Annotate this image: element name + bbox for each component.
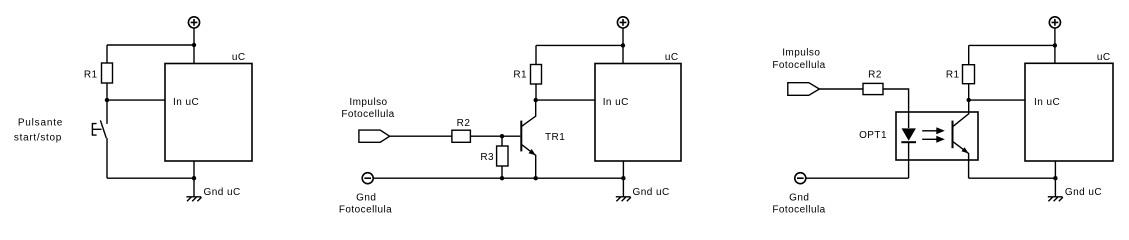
svg-text:uC: uC: [1097, 52, 1111, 63]
label Impulso Fotocellula (circuit 2): [341, 97, 394, 120]
wire junction to R1 (horizontal): [969, 44, 1055, 46]
wire In uC node to uC box: [107, 99, 165, 101]
svg-text:R2: R2: [457, 118, 471, 129]
wire uC box bottom to ground: [193, 161, 195, 197]
label Gnd Fotocellula (circuit 3): [772, 192, 825, 215]
svg-text:Pulsante: Pulsante: [18, 118, 63, 129]
wire tag to R2: [819, 88, 863, 90]
wire uC box bottom to ground: [1054, 161, 1056, 197]
wire R3 to ground rail: [501, 166, 503, 178]
svg-text:Gnd: Gnd: [356, 192, 376, 203]
wire ground rail (horizontal): [373, 177, 623, 179]
svg-text:R1: R1: [513, 69, 527, 80]
wire base node to R3: [501, 136, 503, 146]
node: ground junction: [192, 176, 196, 180]
optocoupler OPT1: [896, 100, 978, 178]
svg-text:In uC: In uC: [173, 97, 199, 108]
power symbol +V (circuit 1): [188, 17, 199, 28]
resistor R1: [963, 65, 975, 84]
node: base junction: [500, 134, 504, 138]
svg-text:R1: R1: [946, 69, 960, 80]
wire R2 to base node: [470, 135, 502, 137]
node: uC ground junction: [1053, 176, 1057, 180]
transistor TR1: [521, 100, 535, 178]
node: In uC junction: [105, 98, 109, 102]
wire tag to R2: [390, 135, 452, 137]
wire junction to R1 top (horizontal): [107, 44, 194, 46]
svg-text:Fotocellula: Fotocellula: [339, 205, 392, 216]
svg-text:start/stop: start/stop: [14, 133, 62, 144]
svg-text:In uC: In uC: [603, 97, 629, 108]
svg-text:Gnd: Gnd: [789, 192, 809, 203]
svg-text:In uC: In uC: [1034, 97, 1060, 108]
wire down to R1: [968, 45, 970, 64]
wire +V to uC box top: [193, 28, 195, 64]
op-amp U2 uC box (circuit 2): [595, 64, 681, 162]
svg-text:R3: R3: [480, 152, 494, 163]
wire R2 to LED anode corner: [883, 89, 909, 112]
svg-text:Fotocellula: Fotocellula: [341, 109, 394, 120]
ground reference Gnd Fotocellula (circuit 3): [795, 173, 806, 184]
resistor R1: [102, 63, 113, 83]
wire R1 to collector node: [535, 84, 537, 100]
svg-text:uC: uC: [232, 52, 246, 63]
op-amp U1 uC box (circuit 1): [165, 64, 252, 162]
wire down to R1: [106, 45, 108, 63]
label Gnd Fotocellula (circuit 2): [339, 192, 392, 215]
svg-text:Fotocellula: Fotocellula: [772, 60, 825, 71]
wire node to uC box: [969, 99, 1025, 101]
node: In uC / collector junction: [967, 98, 971, 102]
node: R1 branch junction: [1053, 43, 1057, 47]
op-amp U3 uC box (circuit 3): [1025, 63, 1113, 161]
wire +V to uC box top: [622, 28, 624, 64]
wire node to uC box: [536, 99, 595, 101]
ground symbol (circuit 2): [616, 197, 631, 201]
wire base node to TR1 base: [502, 135, 520, 137]
wire +V to uC box top: [1054, 28, 1056, 63]
wire ground rail (horizontal): [107, 177, 194, 179]
ground symbol (circuit 3): [1048, 197, 1063, 201]
wire uC box bottom to ground: [622, 161, 624, 197]
resistor R3: [497, 146, 508, 166]
ground reference Gnd Fotocellula (circuit 2): [362, 173, 373, 184]
node: uC ground junction: [621, 176, 625, 180]
wire junction to R1 (horizontal): [536, 44, 623, 46]
svg-text:TR1: TR1: [545, 132, 565, 143]
node tag Impulso input (circuit 2): [359, 130, 390, 142]
svg-text:OPT1: OPT1: [859, 130, 887, 141]
label Impulso Fotocellula (circuit 3): [772, 48, 825, 71]
svg-text:Impulso: Impulso: [349, 97, 387, 108]
power symbol +V (circuit 3): [1049, 17, 1060, 28]
svg-text:Fotocellula: Fotocellula: [772, 205, 825, 216]
wire pushbutton to ground rail: [106, 138, 108, 178]
resistor R2: [452, 130, 471, 142]
wire R1 to collector node: [968, 84, 970, 100]
svg-text:Gnd uC: Gnd uC: [1065, 187, 1102, 198]
svg-text:Gnd uC: Gnd uC: [204, 187, 241, 198]
pushbutton S1 (Pulsante start/stop): [92, 120, 106, 138]
svg-text:R2: R2: [868, 69, 882, 80]
resistor R1: [531, 65, 542, 85]
node: R1 branch junction: [621, 43, 625, 47]
node: emitter rail junction: [534, 176, 538, 180]
wire LED cathode to Gnd Fotocellula rail: [908, 142, 910, 178]
node tag Impulso input (circuit 3): [788, 83, 820, 96]
node: R1 branch junction: [192, 43, 196, 47]
svg-text:uC: uC: [665, 52, 679, 63]
node: In uC / collector junction: [534, 98, 538, 102]
wire emitter to uC ground rail: [969, 177, 1056, 179]
svg-text:Gnd uC: Gnd uC: [633, 187, 670, 198]
svg-text:R1: R1: [84, 69, 98, 80]
svg-text:Impulso: Impulso: [782, 48, 820, 59]
wire Gnd Fotocellula rail (horizontal): [806, 177, 909, 179]
resistor R2: [863, 83, 883, 94]
ground symbol (circuit 1): [186, 197, 201, 201]
wire down to R1: [535, 45, 537, 64]
wire node to pushbutton: [106, 100, 108, 124]
power symbol +V (circuit 2): [617, 17, 628, 28]
wire R1 to In uC node: [106, 83, 108, 100]
node: R3 rail junction: [500, 176, 504, 180]
label Pulsante start/stop: [14, 118, 63, 144]
